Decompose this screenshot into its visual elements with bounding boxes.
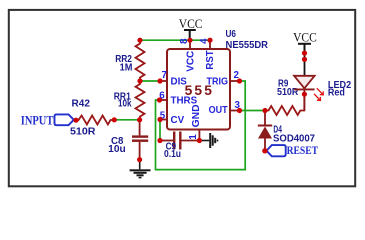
- svg-text:VCC: VCC: [293, 31, 317, 45]
- capacitor C8: [132, 120, 148, 160]
- port RESET: [267, 145, 319, 157]
- svg-text:NE555DR: NE555DR: [226, 40, 269, 51]
- resistor RR1: [136, 81, 145, 120]
- ground GND2 (rotated): [199, 133, 218, 148]
- svg-text:Red: Red: [328, 87, 345, 98]
- junction C9/GND2/pin1: [197, 138, 202, 143]
- svg-text:VCC: VCC: [186, 51, 197, 72]
- svg-text:10u: 10u: [108, 144, 126, 155]
- power symbol VCC (left): [184, 30, 196, 40]
- svg-text:0.1u: 0.1u: [164, 149, 181, 160]
- junction pin6 THRS: [157, 97, 162, 102]
- svg-text:CV: CV: [171, 115, 185, 126]
- resistor R9: [265, 94, 304, 115]
- junction RR1/C8/timing: [137, 117, 142, 122]
- junction RR2/RR1/DIS: [137, 78, 142, 83]
- svg-text:VCC: VCC: [179, 17, 203, 31]
- junction INPUT/R42: [73, 118, 78, 123]
- wire VCC rail top: [140, 39, 210, 41]
- junction pin4 / VCC rail: [207, 38, 212, 43]
- power symbol VCC (right): [298, 44, 311, 54]
- svg-text:OUT: OUT: [209, 105, 228, 116]
- junction pin7 DIS: [157, 78, 162, 83]
- 555 chip box U6: [167, 49, 230, 130]
- pin 8 stub: [189, 40, 191, 49]
- diode D4: [258, 111, 272, 151]
- junction pin5 CV: [157, 117, 162, 122]
- junction RR2 top / VCC rail: [137, 38, 142, 43]
- resistor R42: [76, 116, 114, 125]
- junction R42/timing wire: [112, 117, 117, 122]
- svg-text:R42: R42: [72, 99, 91, 110]
- junction LED/R9: [302, 92, 307, 97]
- pin 4 stub: [209, 40, 211, 49]
- junction C8/GND1: [137, 157, 142, 162]
- svg-text:INPUT: INPUT: [21, 113, 54, 128]
- svg-text:SOD4007: SOD4007: [273, 134, 315, 145]
- pin 1 stub GND: [198, 130, 200, 141]
- LED arrows: [314, 88, 323, 100]
- wire VCC to LED: [304, 54, 306, 76]
- junction VCC/LED wire upper: [302, 51, 307, 56]
- junction pin8 / VCC rail: [187, 38, 192, 43]
- junction pin2 TRIG: [237, 78, 242, 83]
- wire CV drop to C9: [159, 120, 161, 141]
- junction VCC/LED wire lower: [302, 57, 307, 62]
- junction C9 left: [157, 138, 162, 143]
- resistor RR2: [136, 40, 145, 81]
- pin 3 stub OUT: [230, 110, 240, 112]
- LED LED2: [294, 76, 315, 111]
- port INPUT: [21, 113, 74, 128]
- pin 2 stub TRIG: [230, 80, 240, 82]
- svg-text:GND: GND: [191, 104, 202, 127]
- svg-text:1M: 1M: [120, 63, 133, 74]
- wire timing node: [114, 119, 139, 121]
- wire THRS to bottom loop: [156, 81, 246, 170]
- svg-text:RESET: RESET: [287, 145, 319, 157]
- wire OUT net: [240, 110, 266, 112]
- svg-text:DIS: DIS: [171, 77, 188, 88]
- pin 5 stub CV: [160, 119, 167, 121]
- pin 6 stub THRS: [160, 99, 168, 101]
- junction pin3 OUT: [237, 108, 242, 113]
- svg-text:510R: 510R: [70, 126, 96, 137]
- ground GND1: [130, 160, 151, 179]
- svg-text:RST: RST: [205, 50, 216, 69]
- wire DIS net: [140, 80, 160, 82]
- border frame: [9, 10, 355, 186]
- svg-text:7: 7: [162, 70, 168, 81]
- svg-text:10k: 10k: [118, 99, 132, 110]
- pin 7 stub DIS: [160, 80, 167, 82]
- svg-text:U6: U6: [226, 29, 237, 40]
- svg-text:TRIG: TRIG: [207, 76, 229, 87]
- capacitor C9: [160, 132, 199, 150]
- junction OUT/R9/D4: [262, 108, 267, 113]
- junction D4/RESET: [262, 148, 267, 153]
